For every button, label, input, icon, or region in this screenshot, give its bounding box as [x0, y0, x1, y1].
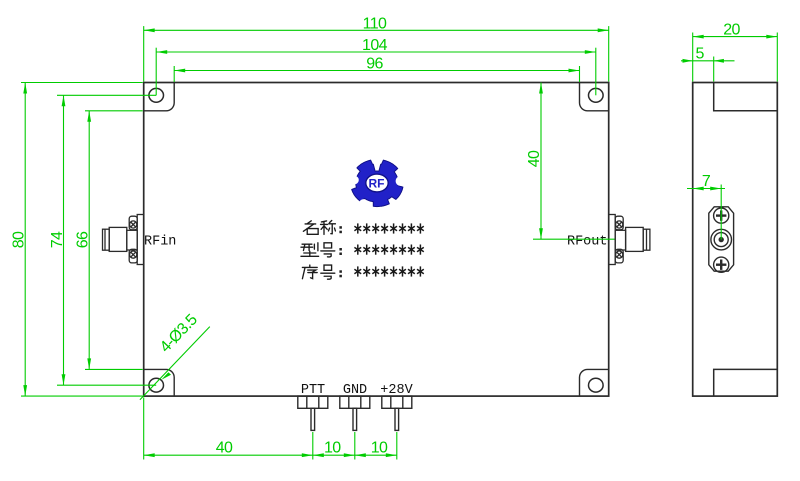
svg-text:7: 7	[702, 173, 711, 190]
dim 20 extension lines	[692, 33, 694, 82]
svg-text:5: 5	[696, 46, 705, 63]
dim 74 line	[63, 95, 65, 385]
fullwidth colon line1	[339, 226, 342, 233]
dim 10 line second	[355, 454, 397, 456]
nameplate text	[301, 220, 424, 279]
dim 7 line	[687, 188, 725, 190]
PTT terminal block	[298, 396, 328, 430]
dim 104 line	[156, 51, 596, 53]
corner notch top-right	[580, 83, 609, 111]
hanzi hao2	[321, 265, 335, 279]
fullwidth colon line3	[339, 270, 342, 277]
dim 20 line	[693, 36, 778, 38]
side connector flange	[709, 207, 734, 271]
hanzi cheng	[321, 220, 336, 234]
asterisks row1	[354, 223, 423, 233]
hanzi hao	[321, 243, 335, 257]
dim 40 extension to RFout	[533, 238, 615, 240]
hanzi xu	[302, 265, 317, 279]
svg-text:RF: RF	[369, 176, 385, 190]
asterisks row2	[354, 245, 423, 255]
mounting hole top-left	[149, 88, 164, 102]
svg-text:110: 110	[363, 15, 387, 32]
svg-text:40: 40	[216, 440, 233, 457]
corner notch bottom-right	[580, 369, 609, 396]
dim 74 extension lines	[57, 94, 156, 96]
dim 80 extension lines	[21, 82, 143, 84]
dim 80 line	[24, 83, 26, 397]
RFout SMA connector	[609, 215, 650, 265]
fullwidth colon line2	[339, 248, 342, 255]
corner notch bottom-left	[144, 369, 175, 396]
svg-text:10: 10	[371, 440, 388, 457]
dim 40 vertical line	[540, 83, 542, 240]
svg-text:RFout: RFout	[567, 235, 608, 250]
svg-text:104: 104	[362, 37, 388, 54]
dim 10 line first	[313, 454, 355, 456]
hanzi xing	[301, 243, 319, 257]
dim 96 extension lines	[173, 66, 175, 82]
svg-text:PTT: PTT	[301, 383, 325, 398]
bottom extension lines	[143, 398, 145, 460]
svg-text:74: 74	[49, 231, 66, 248]
RFin SMA connector	[103, 215, 144, 265]
dim 5 line with outside arrows	[681, 60, 735, 62]
enclosure body outline	[144, 83, 609, 397]
corner notch top-left	[144, 83, 175, 111]
leader arrowhead	[161, 372, 171, 380]
side top step	[714, 83, 778, 111]
side screw top	[714, 208, 729, 223]
svg-text:RFin: RFin	[144, 235, 176, 250]
svg-text:+28V: +28V	[380, 383, 413, 398]
side SMA center	[711, 229, 732, 250]
svg-text:80: 80	[10, 231, 27, 248]
+28V terminal block	[382, 396, 412, 430]
dim 5 extension line	[713, 57, 715, 82]
side bottom step	[714, 369, 778, 396]
GND terminal block	[340, 396, 370, 430]
dim 5 outside arrowheads	[683, 59, 693, 63]
mounting hole top-right	[589, 88, 604, 102]
svg-text:20: 20	[723, 21, 740, 38]
leader line 4-3.5	[140, 327, 210, 400]
svg-text:40: 40	[526, 150, 543, 167]
mounting hole bottom-left	[149, 378, 164, 392]
dim 66 line	[88, 111, 90, 370]
dim 110 line	[144, 29, 609, 31]
dim 40 bottom line	[144, 454, 313, 456]
svg-text:96: 96	[366, 56, 383, 73]
hanzi ming	[303, 221, 318, 235]
side body outline	[693, 83, 778, 397]
svg-text:10: 10	[324, 440, 341, 457]
dim 110 extension lines	[143, 26, 145, 81]
dim 7 extension line	[720, 185, 722, 240]
dim 104 extension lines	[155, 48, 157, 96]
mounting hole bottom-right	[589, 378, 604, 392]
dim 66 extension lines	[85, 110, 143, 112]
svg-text:GND: GND	[343, 383, 367, 398]
side screw bottom	[714, 257, 729, 272]
company gear logo	[350, 160, 405, 208]
dim 96 line	[174, 70, 579, 72]
svg-text:66: 66	[75, 231, 92, 248]
asterisks row3	[354, 266, 423, 276]
